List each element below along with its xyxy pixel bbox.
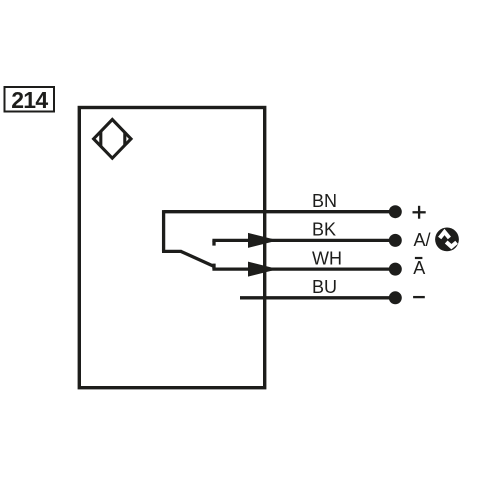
svg-text:A: A: [413, 258, 425, 278]
output arrow on WH: [248, 262, 278, 277]
svg-text:BU: BU: [312, 277, 337, 297]
figure number box 214: [5, 87, 55, 113]
svg-text:A/: A/: [414, 230, 431, 250]
wire switch pivot: [162, 250, 181, 253]
terminal label A-bar: [413, 258, 425, 278]
terminal label +: [413, 206, 426, 219]
terminal dot BU: [389, 291, 402, 304]
terminal dot BK: [389, 234, 402, 247]
contact tick upper (BK): [212, 240, 215, 245]
terminal label -: [413, 296, 425, 298]
svg-text:WH: WH: [312, 248, 342, 268]
svg-text:BN: BN: [312, 191, 337, 211]
svg-text:BK: BK: [312, 220, 336, 240]
svg-text:214: 214: [11, 87, 48, 113]
switching-state icon (complementary output): [435, 228, 459, 252]
wire BK output: [212, 239, 391, 242]
terminal dot BN: [389, 205, 402, 218]
output arrow on BK: [248, 233, 278, 248]
contact tick lower (WH): [212, 264, 215, 270]
proximity sensor symbol (diamond): [94, 120, 131, 159]
switch arm: [181, 251, 215, 266]
wire WH output: [212, 267, 391, 270]
sensor body outline: [79, 108, 264, 388]
wire BN (+ supply): [164, 210, 392, 213]
terminal dot WH: [389, 263, 402, 276]
wire BU (- supply): [240, 296, 392, 299]
wire internal vertical from BN: [162, 210, 165, 251]
